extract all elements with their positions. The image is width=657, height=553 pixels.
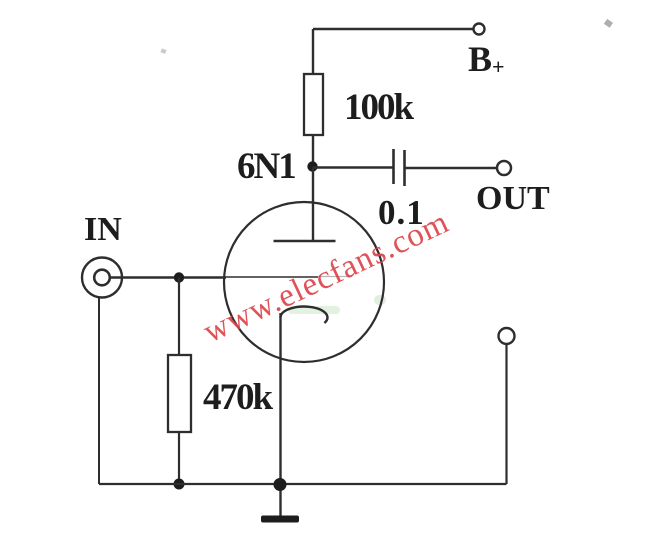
scan speck top xyxy=(160,19,613,54)
wire: bottom rail xyxy=(99,483,507,485)
wire: IN to grid node xyxy=(110,276,226,278)
tube cathode xyxy=(281,307,328,323)
terminal IN outer xyxy=(82,258,122,298)
node bottom R2 junction xyxy=(174,479,185,490)
wire: R2 to bottom rail xyxy=(178,432,180,484)
wire: node to coupling cap xyxy=(313,166,393,168)
svg-text:470k: 470k xyxy=(203,377,274,418)
wire: resistor to anode node xyxy=(312,135,314,167)
terminal B+ xyxy=(474,24,485,35)
wire: IN terminal down left rail xyxy=(98,298,100,485)
wire: top horizontal B+ feed xyxy=(313,28,473,30)
svg-text:+: + xyxy=(492,54,505,79)
wire: cathode down to ground xyxy=(279,313,281,516)
tube envelope 6N1 xyxy=(224,202,384,362)
svg-text:B: B xyxy=(468,39,492,79)
svg-text:OUT: OUT xyxy=(476,180,550,217)
tube plate xyxy=(274,240,336,243)
wire: node down to R2 xyxy=(178,278,180,356)
resistor R1 100k xyxy=(304,74,323,135)
svg-text:100k: 100k xyxy=(344,87,415,128)
wire: right rail up to output common terminal xyxy=(505,344,507,484)
terminal IN inner xyxy=(94,270,110,286)
wire: node down to plate xyxy=(312,167,314,241)
node grid junction xyxy=(174,272,184,282)
resistor R2 470k xyxy=(168,355,191,432)
node cathode bottom junction xyxy=(274,478,287,491)
green smudge near cathode xyxy=(288,306,340,314)
watermark www.elecfans.com xyxy=(198,204,455,350)
terminal OUT xyxy=(497,161,511,175)
wire: B+ line down to resistor xyxy=(312,29,314,74)
terminal common xyxy=(499,328,515,344)
wire: cap to OUT terminal xyxy=(405,167,498,169)
svg-text:IN: IN xyxy=(84,211,122,248)
tube grid xyxy=(226,276,318,278)
svg-text:6N1: 6N1 xyxy=(237,146,295,187)
capacitor C1 0.1 xyxy=(394,149,405,186)
green smudge right side xyxy=(374,295,386,305)
ground xyxy=(261,516,299,523)
node anode junction xyxy=(307,161,317,171)
grid faint continuation xyxy=(318,276,352,278)
